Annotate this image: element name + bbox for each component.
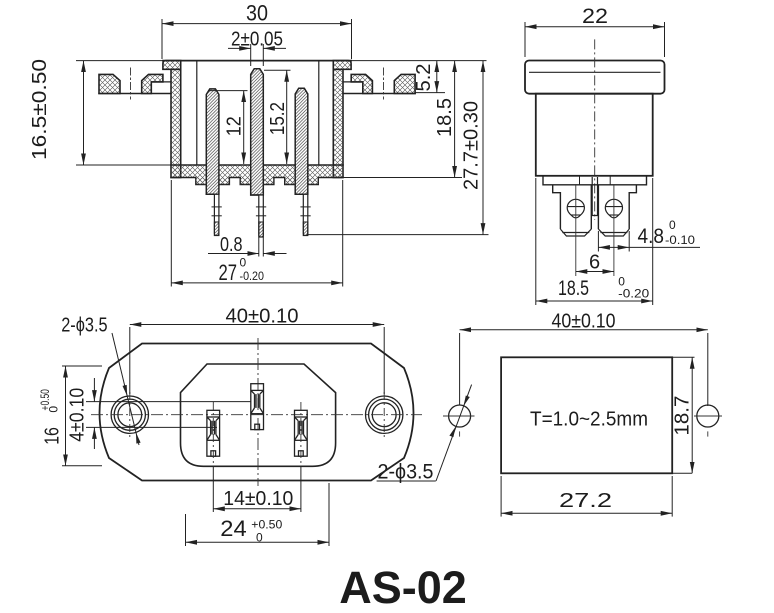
svg-text:-0.20: -0.20 [240,269,265,283]
svg-text:40±0.10: 40±0.10 [552,311,616,333]
svg-text:2-ϕ3.5: 2-ϕ3.5 [378,461,434,484]
right flange hole centerline [383,68,385,99]
pin L (section) [206,89,219,194]
right mounting hole circle [697,405,719,427]
bottom teeth profile [196,178,318,185]
right dims ext lines [351,60,487,62]
cavity inner profile lines [196,61,198,165]
dim 16 +0.50/0 [62,365,102,367]
terminal 1 hanger tooth [553,185,592,229]
horizontal centerline [91,414,422,416]
dim 27.2 [500,476,502,517]
svg-text:0: 0 [240,256,247,270]
cap inner line [529,71,661,73]
solder tail L [206,194,221,235]
svg-text:24: 24 [220,516,246,541]
dim 15.2 [264,69,291,71]
left flange hole centerline [130,68,132,99]
svg-text:18.5: 18.5 [434,98,456,137]
dim 18.7 [672,356,694,358]
bottom step plate [543,176,647,185]
svg-text:27: 27 [219,260,238,285]
solder tail N [295,194,310,235]
svg-text:T=1.0~2.5mm: T=1.0~2.5mm [530,409,648,431]
terminal 1 hole [567,199,584,218]
svg-text:16.5±0.50: 16.5±0.50 [29,59,51,160]
right mounting hole [366,396,403,433]
svg-text:40±0.10: 40±0.10 [226,306,299,328]
dim 16.5±0.50 [76,60,163,62]
dim 6 [576,271,614,273]
left flange bottom edge [99,93,171,95]
body rim top edge [163,60,351,62]
svg-text:+0.50: +0.50 [251,517,282,531]
dim 30 [161,19,163,59]
pin window L [207,410,220,456]
svg-text:16: 16 [42,427,64,445]
dim 2±0.05 [250,44,252,66]
svg-text:27.7±0.30: 27.7±0.30 [461,101,483,190]
svg-text:2±0.05: 2±0.05 [231,29,283,51]
plate slot lines [579,176,581,185]
svg-text:18.7: 18.7 [672,396,694,436]
panel cutout rectangle [501,357,672,473]
terminal 2 tip [598,229,629,236]
svg-text:6: 6 [589,252,600,274]
svg-text:-0.10: -0.10 [665,233,695,247]
right mounting flange (section) [394,74,415,93]
pin window E [251,384,264,430]
svg-text:0: 0 [669,218,676,232]
dim 40±0.10 (hole spacing) [459,333,461,405]
right hole vertical centerline [383,392,385,440]
left wall [171,69,181,177]
svg-text:14±0.10: 14±0.10 [223,488,293,510]
bottom-right texts [378,311,694,513]
svg-text:18.5: 18.5 [558,277,589,300]
top-left dim texts [29,1,483,286]
dim 27 0/-0.20 [170,180,172,287]
left mounting hole [111,396,148,433]
svg-text:-0.20: -0.20 [618,287,649,301]
left mounting hole circle [449,405,471,427]
left hole vertical centerline [129,392,131,440]
vertical centerline [594,39,596,220]
dim 18.5 0/-0.20 [535,178,537,305]
left mounting flange (section) [99,74,120,93]
pin E earth (section) [251,69,264,195]
pin window N [295,410,308,456]
left hole crosshair [443,415,475,417]
svg-text:4±0.10: 4±0.10 [67,388,89,442]
svg-text:22: 22 [582,5,608,28]
right flange lip underside line [343,81,363,83]
bottom-left texts [38,306,299,545]
svg-text:15.2: 15.2 [267,102,289,135]
dim 22 [524,22,526,57]
svg-text:30: 30 [246,1,268,26]
top-right dim texts [558,5,695,301]
dim 4±0.10 [86,401,251,403]
left top lip block [163,61,181,70]
dim 5.2 [436,61,438,93]
terminal 2 hanger tooth [598,185,636,229]
underline of 2-phi3.5 [377,480,436,482]
terminal 1 tip [560,229,591,236]
svg-text:12: 12 [224,116,246,136]
center rib between terminals [592,177,597,216]
svg-text:0: 0 [47,406,61,413]
inner recess outline [181,364,336,466]
svg-text:0.8: 0.8 [220,234,243,256]
floor band [171,165,343,178]
svg-text:5.2: 5.2 [413,64,435,92]
solder tail E [251,195,266,237]
leader line 2-phi3.5 [436,385,472,481]
dim 18.5 right [454,61,456,178]
right wall [333,69,343,177]
left flange lip underside line [151,81,171,83]
right flange bottom edge [343,93,415,95]
dim 24 +0.50/0 [185,514,187,546]
top cap [525,61,665,94]
dim 40±0.10 top [129,327,131,394]
dim 4.8 0/-0.10 [597,231,599,252]
dim 0.8 [258,238,260,257]
L pin vertical centerline [212,402,214,464]
pin N (section) [295,88,308,194]
dim 14±0.10 [212,466,214,512]
terminal 1 centerline [575,185,577,276]
dim 12 [208,90,248,92]
terminal 2 hole [605,199,622,218]
svg-text:AS-02: AS-02 [339,562,467,613]
leader 2-phi3.5 top-left [112,333,139,445]
dim 27.7±0.30 [482,61,484,235]
outer flange outline [100,344,414,481]
svg-text:0: 0 [256,531,263,545]
svg-text:4.8: 4.8 [638,225,665,248]
vertical centerline [257,338,259,486]
terminal 2 centerline [613,185,615,276]
main body [536,94,653,176]
svg-text:2-ϕ3.5: 2-ϕ3.5 [61,315,107,337]
bottom outline between teeth [171,177,343,179]
right hole crosshair [694,415,722,417]
N pin vertical centerline [300,402,302,464]
svg-text:27.2: 27.2 [559,490,612,512]
right top lip block [333,61,351,70]
